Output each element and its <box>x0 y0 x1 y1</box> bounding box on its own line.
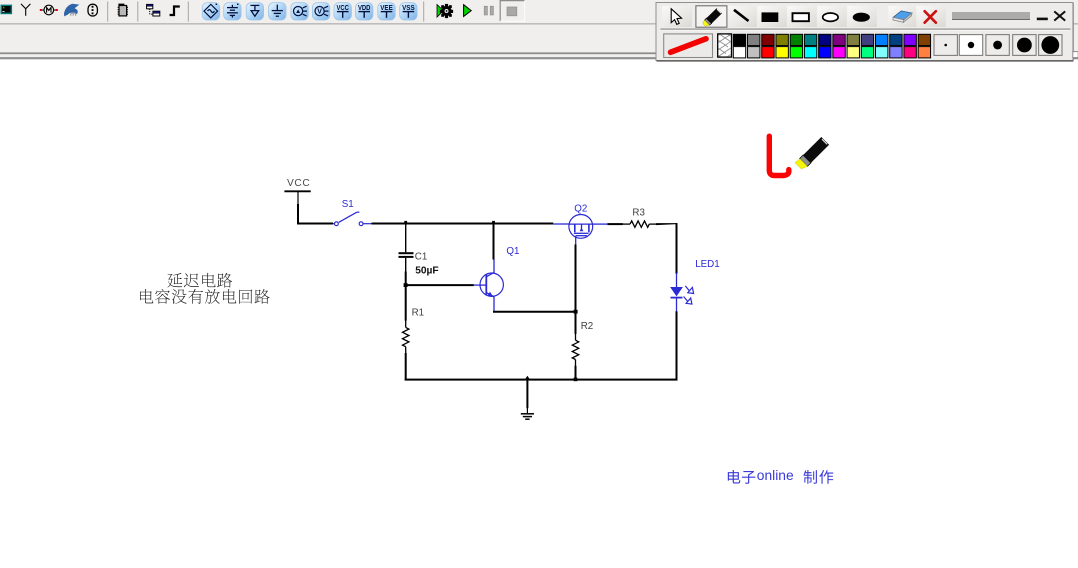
selected marker tool button <box>696 6 727 27</box>
toolbar blue button: ground <box>269 3 286 20</box>
wire R3 to right rail corner <box>649 223 677 274</box>
transistor Q1 (NPN) <box>474 259 504 312</box>
wire rail to C1 <box>405 223 407 252</box>
svg-text:R1: R1 <box>412 308 425 319</box>
bottom rail wire <box>405 379 678 381</box>
schematic note line 2: 电容没有放电回路 <box>140 289 270 304</box>
toolbar icon: pause <box>484 6 493 15</box>
toolbar icon: oscilloscope <box>1 5 13 15</box>
transistor Q2 (MOSFET) <box>553 215 608 246</box>
wire base of Q1 <box>406 284 474 286</box>
svg-text:online: online <box>757 468 794 483</box>
toolbar blue button: gnd-arrow <box>246 3 263 20</box>
svg-text:V: V <box>317 9 322 16</box>
red marker stroke (letter L) <box>769 136 789 175</box>
svg-text:VDD: VDD <box>358 3 371 12</box>
wire C1 to R1 <box>405 258 407 321</box>
toolbar blue button: src-ctl2 <box>312 3 329 20</box>
wire Q2 to R3 <box>608 223 631 225</box>
toolbar icon: step waveform <box>170 7 180 16</box>
junction node at C1 branch <box>404 221 407 224</box>
toolbar icon: hierarchy <box>147 4 160 16</box>
wire VCC to S1 <box>297 223 333 225</box>
junction node at Q1 base branch <box>404 283 408 287</box>
svg-text:S1: S1 <box>342 199 354 210</box>
tool icon: marker pen <box>703 8 722 26</box>
resistor R3 <box>630 221 649 227</box>
svg-text:R2: R2 <box>581 321 594 332</box>
tool icon: filled rectangle <box>762 12 779 22</box>
ground symbol <box>521 414 534 419</box>
svg-text:Q2: Q2 <box>574 203 587 214</box>
minimize button <box>1037 18 1048 21</box>
wire VCC down <box>297 204 299 223</box>
toolbar separator 2 <box>137 2 138 22</box>
color palette <box>733 34 930 58</box>
toolbar separator 4 <box>423 2 424 22</box>
toolbar blue button: VEE <box>378 3 395 20</box>
resistor R2 <box>572 340 578 380</box>
svg-text:50µF: 50µF <box>415 265 438 276</box>
window row separator (sunken panel edge) <box>661 29 1071 30</box>
toolbar icon: IC chip <box>118 4 128 16</box>
tool icon: filled ellipse <box>853 13 870 22</box>
width selector lines <box>952 12 1030 19</box>
svg-text:Q1: Q1 <box>506 246 519 257</box>
wire Q2 drain down through R2 <box>575 245 577 341</box>
schematic note line 1: 延迟电路 <box>167 273 232 288</box>
svg-text:VEE: VEE <box>380 3 393 12</box>
tool icon: clear X <box>925 11 936 23</box>
toolbar lower divider line <box>0 23 1078 24</box>
toolbar button: stop (sunken) <box>500 1 525 22</box>
resistor R1 <box>403 320 409 381</box>
VCC power symbol <box>284 178 310 205</box>
svg-text:VCC: VCC <box>336 3 349 12</box>
toolbar blue button: VDD <box>356 3 373 20</box>
svg-text:R3: R3 <box>632 207 645 218</box>
tool icon: eraser <box>893 11 912 22</box>
footer credit: 电子online 制作 <box>728 468 833 484</box>
toolbar separator 1 <box>107 2 108 22</box>
wire S1 to Q2 (top rail) <box>372 223 554 225</box>
toolbar background strip <box>0 0 1078 53</box>
toolbar icon: run (play) <box>464 5 472 17</box>
tool icon: outlined rectangle <box>793 13 809 21</box>
toolbar icon: blue bird logo <box>64 4 79 17</box>
toolbar separator 3 <box>188 2 189 22</box>
LED1 emission arrows <box>684 286 694 304</box>
toolbar icon: antenna <box>21 4 30 16</box>
toolbar icon: run with settings (gear+play) <box>437 4 453 18</box>
wire to ground <box>526 379 528 413</box>
LED LED1 <box>670 273 683 312</box>
marker pen cursor <box>795 137 829 169</box>
toolbar blue button: VSS <box>400 3 417 20</box>
tool icon: line <box>734 10 749 21</box>
toolbar blue button: src-dc <box>224 3 241 20</box>
transparent (crosshatch) swatch <box>710 33 738 61</box>
toolbar blue button: VCC <box>334 3 351 20</box>
capacitor C1 <box>399 253 414 257</box>
junction node at R2/bottom rail <box>574 378 578 382</box>
canvas top border (sunken edge) <box>0 52 1078 59</box>
tool icon: outlined ellipse <box>823 13 838 21</box>
svg-text:LED1: LED1 <box>695 259 720 270</box>
junction node at emitter/R2 <box>574 310 578 314</box>
window edge tab piece <box>1073 52 1078 58</box>
close button <box>1055 12 1064 20</box>
svg-text:C1: C1 <box>415 252 428 263</box>
stroke preview box <box>664 34 713 58</box>
toolbar icon: component capsule <box>88 4 97 16</box>
toolbar blue button: src-ac <box>202 3 219 20</box>
toolbar icon: motor <box>40 5 58 15</box>
wire LED1 to bottom rail <box>676 311 678 380</box>
wire Q1 emitter to R2 column <box>493 311 576 313</box>
pen size selector <box>934 35 1062 56</box>
toolbar blue button: src-ctl1 <box>291 3 308 20</box>
svg-text:VSS: VSS <box>402 3 415 12</box>
tool icon: arrow cursor <box>671 9 681 25</box>
wire rail to Q1 collector <box>493 223 495 260</box>
switch S1 <box>333 212 372 225</box>
junction node at Q1 collector branch <box>492 221 495 224</box>
annotation tool window frame <box>656 3 1074 61</box>
svg-text:VCC: VCC <box>287 178 310 189</box>
junction node at ground <box>525 376 530 380</box>
